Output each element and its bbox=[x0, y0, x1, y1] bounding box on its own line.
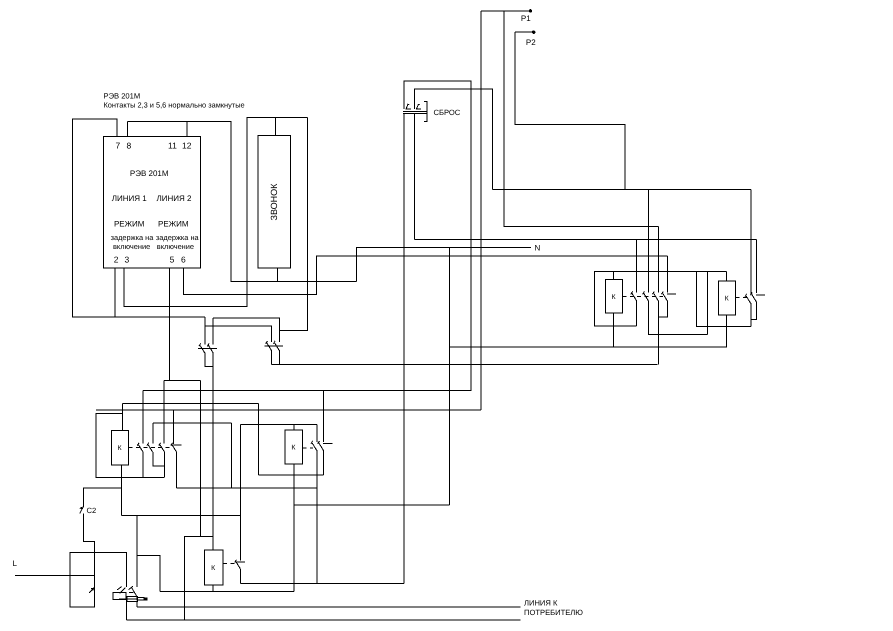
wire K2 frame left side bbox=[257, 403, 259, 475]
node P1 label bbox=[521, 14, 531, 23]
contact K4c1 (NC) bbox=[235, 560, 246, 569]
U1 mode2 label bbox=[158, 220, 189, 229]
wire output line 2 bbox=[126, 619, 520, 621]
wire link x231 down bbox=[230, 423, 232, 488]
U1 on1 label bbox=[113, 242, 150, 251]
wire bus y422 K1 aux line bbox=[153, 422, 232, 424]
relay K2 linkage dashes bbox=[303, 447, 314, 449]
pin 3 label bbox=[125, 254, 130, 264]
wire output line 1 bbox=[137, 606, 521, 608]
contact A2 upper wire bbox=[212, 318, 214, 345]
relay K1 coil label bbox=[117, 445, 122, 452]
wire K3c3 lower to bus y364 bbox=[657, 301, 659, 365]
wire breaker box top extension to fuse F1 bbox=[95, 552, 127, 586]
wire bus y189 P2 net bbox=[492, 188, 751, 190]
wire pin2 stub bbox=[114, 268, 116, 317]
contact B2 lower wire bbox=[278, 350, 280, 364]
relay K5 coil label bbox=[725, 296, 730, 303]
wire contact K4c1 feed bbox=[240, 425, 242, 561]
relay K1 frame bbox=[96, 413, 164, 477]
node blade tip bbox=[144, 598, 148, 601]
contact A1 upper wire bbox=[204, 317, 206, 344]
relay K4 coil box bbox=[204, 550, 223, 585]
relay K4 coil label bbox=[211, 565, 216, 572]
wire K2 coil top pin bbox=[293, 425, 295, 430]
svg-text:P1: P1 bbox=[521, 14, 531, 23]
wire K5 coil bottom pin to bus y347 bbox=[726, 315, 728, 347]
svg-text:К: К bbox=[211, 565, 216, 572]
wire contact K1c3 feed from bus bbox=[173, 410, 175, 444]
wire bus y487 bbox=[177, 487, 317, 489]
wire contact K2c1 feed bbox=[316, 425, 318, 442]
svg-text:5: 5 bbox=[170, 254, 175, 264]
wire bus y390 bbox=[143, 389, 471, 391]
wire bus y583 to SB1 pole1 bbox=[241, 582, 404, 584]
reset button SB1 linkage bracket bbox=[424, 102, 427, 122]
svg-text:включение: включение bbox=[113, 242, 150, 251]
svg-text:ЗВОНОК: ЗВОНОК bbox=[269, 183, 279, 221]
contact K5c1 bbox=[745, 294, 751, 303]
svg-text:К: К bbox=[117, 445, 122, 452]
label output line 2 bbox=[524, 608, 583, 617]
relay K1 linkage dashes bbox=[129, 447, 172, 449]
wire pin8-pin12 top bus to bell bottom bus bbox=[128, 121, 357, 281]
reset button SB1 bar upper bbox=[403, 110, 426, 112]
wire fuse through line bbox=[119, 598, 137, 600]
relay K5 frame inner left side bbox=[707, 271, 709, 334]
wire K4 coil top pin bbox=[212, 537, 214, 551]
wire drop x136 from y515 bbox=[136, 515, 138, 555]
U1 delay2 label bbox=[156, 233, 200, 242]
svg-text:К: К bbox=[291, 445, 296, 452]
wire P1 horizontal bbox=[481, 10, 531, 12]
wire SB1 pole1 long drop bbox=[403, 114, 405, 584]
relay K3 frame bbox=[594, 271, 696, 326]
svg-text:ЛИНИЯ К: ЛИНИЯ К bbox=[524, 599, 558, 608]
wire K2c2 lower to frame corner bbox=[323, 450, 325, 475]
wire bus y591 bbox=[160, 591, 294, 593]
wire drop x449 from N bus bbox=[449, 247, 451, 505]
contact K3c1 bbox=[631, 291, 637, 300]
svg-text:К: К bbox=[725, 296, 730, 303]
relay K3 linkage dashes bbox=[622, 295, 663, 297]
wire contact K3c3 feed drop bbox=[657, 226, 659, 292]
wire K4 coil bottom pin bbox=[212, 585, 214, 592]
breaker QF1 symbol bbox=[89, 587, 94, 593]
node L label bbox=[13, 559, 18, 568]
reset button SB1 pole2 actuator bbox=[416, 104, 421, 109]
wire K5 coil top pin bbox=[726, 271, 728, 281]
wire contact K3c2 feed drop bbox=[648, 189, 650, 292]
wire long drop x200 to relay K4 frame bbox=[199, 381, 201, 537]
relay K2 coil label bbox=[291, 445, 296, 452]
svg-text:L: L bbox=[13, 559, 18, 568]
wire K4c1 lower bbox=[240, 569, 242, 584]
pin 5 label bbox=[170, 254, 175, 264]
pin 2 label bbox=[114, 254, 119, 264]
wire bus y364 to relay group K3 bbox=[272, 363, 658, 365]
pin 11 label bbox=[168, 141, 177, 151]
svg-text:12: 12 bbox=[182, 141, 192, 151]
bell HA1 ЗВОНОК box bbox=[258, 136, 291, 268]
reset button SB1 pole1 upper route bbox=[404, 81, 471, 390]
wire P1 long drop to bus y411 bbox=[480, 11, 482, 410]
wire K3 coil top pin bbox=[612, 271, 614, 279]
relay K3 coil box bbox=[606, 280, 623, 314]
relay K1 coil box bbox=[111, 431, 128, 465]
wire bus y347 relay coils return bbox=[450, 346, 727, 348]
wire branch y326 to contact B1 bbox=[205, 326, 272, 342]
relay K2 coil box bbox=[285, 430, 302, 464]
label output line 1 bbox=[524, 599, 558, 608]
wire K1 bottom route bbox=[122, 514, 241, 516]
wire K1 top feed line y402 bbox=[123, 402, 259, 404]
wire contact K5c2 feed drop bbox=[755, 239, 757, 293]
svg-text:включение: включение bbox=[157, 242, 194, 251]
contact K1c1 bbox=[147, 443, 153, 452]
contact K1c0 bbox=[137, 443, 143, 452]
label contacts note bbox=[104, 100, 245, 109]
wire bus y504 bbox=[294, 504, 450, 506]
svg-text:СБРОС: СБРОС bbox=[434, 108, 461, 117]
contact A2 (NC) bbox=[206, 343, 217, 352]
contact B2 (NC) bbox=[272, 341, 283, 350]
relay K4 frame left bbox=[184, 537, 213, 621]
contact B2 upper wire bbox=[278, 330, 280, 342]
svg-text:P2: P2 bbox=[526, 38, 536, 47]
svg-text:3: 3 bbox=[125, 254, 130, 264]
contact A1 lower wire jog bbox=[205, 353, 213, 367]
svg-text:РЕЖИМ: РЕЖИМ bbox=[158, 220, 189, 229]
svg-text:N: N bbox=[535, 243, 541, 252]
wire K2c1 lower long drop bbox=[316, 450, 318, 583]
relay K5 coil box bbox=[718, 281, 735, 315]
wire K5c2 lower jog to K5c1 bbox=[751, 301, 757, 319]
wire neutral bus N bbox=[357, 247, 531, 281]
svg-text:задержка на: задержка на bbox=[111, 233, 155, 242]
bell label bbox=[269, 183, 279, 221]
contact K3c3 bbox=[653, 291, 659, 300]
wire K5c1 lower to frame bottom bbox=[750, 303, 752, 326]
reset button SB1 label bbox=[434, 108, 461, 117]
wire K3c4 lower jog to K3c3 wire bbox=[658, 301, 667, 318]
U1 mode1 label bbox=[114, 220, 145, 229]
reset button SB1 pole1 actuator bbox=[406, 104, 411, 109]
contact K5c2 (NC) bbox=[751, 292, 766, 301]
svg-text:РЭВ 201М: РЭВ 201М bbox=[104, 92, 141, 101]
switch blade outline bbox=[137, 597, 144, 600]
contact B1 (NC) bbox=[265, 341, 276, 350]
wire pin6 to bus N2 right bbox=[183, 256, 667, 295]
svg-text:2: 2 bbox=[114, 254, 119, 264]
wire C2 branch from K1 wire bbox=[83, 488, 121, 507]
wire F1 down to output bus bbox=[125, 600, 127, 620]
node P2 dot bbox=[532, 31, 535, 34]
relay K5 frame outer path bbox=[696, 271, 750, 326]
svg-text:8: 8 bbox=[127, 141, 132, 151]
pin 8 label bbox=[127, 141, 132, 151]
relay K5 linkage dashes bbox=[736, 297, 747, 299]
wire bus y424 K2 top line bbox=[241, 424, 317, 426]
wire bus y411 P1 net bbox=[96, 409, 481, 411]
wire K2 frame bottom bbox=[258, 474, 323, 476]
wire SB1 pole2 drop to bus y239 bbox=[413, 114, 415, 240]
wire bus B from contact A2 top bbox=[213, 318, 279, 331]
wire jog at y380 bbox=[164, 380, 200, 382]
wire pin5 drop bbox=[168, 268, 170, 381]
wire bus y239 bbox=[414, 238, 756, 240]
contact B1 lower wire bbox=[271, 350, 273, 364]
wire P2 route down and right bbox=[515, 32, 625, 189]
reset button SB1 bar lower bbox=[403, 113, 426, 115]
switch Q2 lever bbox=[129, 586, 138, 597]
wire K3c2 lower to bus y334 bbox=[649, 301, 708, 335]
svg-text:ЛИНИЯ 2: ЛИНИЯ 2 bbox=[157, 194, 193, 203]
wire K2 coil bottom pin bbox=[293, 464, 295, 592]
wire K1c2 lower to frame corner bbox=[164, 452, 166, 478]
wire pin8 riser bbox=[127, 121, 129, 136]
svg-text:6: 6 bbox=[181, 254, 186, 264]
svg-text:Контакты 2,3 и 5,6 нормально з: Контакты 2,3 и 5,6 нормально замкнутые bbox=[104, 100, 245, 109]
wire contact S2 top feed bbox=[163, 381, 165, 444]
wire F2 down to output bus bbox=[136, 602, 138, 607]
wire pin7 to left frame down to node A bus bbox=[73, 119, 205, 317]
node P2 label bbox=[526, 38, 536, 47]
relay K5 frame top edge bbox=[696, 270, 726, 272]
node N label bbox=[535, 243, 541, 252]
contact K2c1 bbox=[311, 441, 317, 450]
wire pin12 riser bbox=[186, 121, 188, 136]
contact K3c2 bbox=[643, 291, 649, 300]
wire K1 bottom to fuse switch Q2 bbox=[136, 555, 138, 587]
wire L input bbox=[15, 574, 95, 576]
node P1 dot bbox=[529, 9, 532, 12]
wire P2 horizontal bbox=[515, 31, 534, 33]
wire K1 coil bottom pin bbox=[121, 465, 123, 516]
wire C2 lower bbox=[83, 513, 94, 587]
wire contact K3c4 feed drop bbox=[666, 256, 668, 292]
relay K3 coil label bbox=[612, 294, 617, 301]
timer relay U1 РЭВ 201М box bbox=[104, 137, 201, 269]
svg-text:РЕЖИМ: РЕЖИМ bbox=[114, 220, 145, 229]
svg-text:11: 11 bbox=[168, 141, 177, 151]
contact K1c3 (NC) bbox=[171, 443, 182, 452]
fuse F2 body bbox=[127, 597, 138, 602]
svg-text:ЛИНИЯ 1: ЛИНИЯ 1 bbox=[112, 194, 148, 203]
svg-text:С2: С2 bbox=[87, 506, 97, 515]
contact K2c2 (NC) bbox=[318, 441, 333, 450]
wire K3c1 lower to frame corner bbox=[636, 301, 638, 327]
wire pin3 to bell outer frame top bbox=[124, 117, 307, 306]
switch C2 lever bbox=[79, 507, 83, 514]
contact K3c4 (NC) bbox=[662, 291, 677, 300]
U1 name label bbox=[130, 169, 169, 178]
contact A1 (NC) bbox=[198, 343, 209, 352]
wire branch y555 right bbox=[137, 556, 160, 592]
svg-text:ПОТРЕБИТЕЛЮ: ПОТРЕБИТЕЛЮ bbox=[524, 608, 583, 617]
switch Q1 lever bbox=[117, 587, 125, 594]
wire bell bottom pin bbox=[276, 268, 278, 281]
U1 line1 label bbox=[112, 194, 148, 203]
contact K1c2 bbox=[159, 443, 165, 452]
label device type РЭВ 201М bbox=[104, 92, 141, 101]
wire contact K5c1 feed drop bbox=[750, 189, 752, 294]
U1 delay1 label bbox=[111, 233, 155, 242]
wire K1 coil top pin bbox=[122, 403, 124, 430]
pin 6 label bbox=[181, 254, 186, 264]
wire P1 branch drop x504 bbox=[504, 11, 658, 226]
reset button SB1 pole2 upper route bbox=[414, 89, 492, 190]
svg-text:РЭВ 201М: РЭВ 201М bbox=[130, 169, 169, 178]
wire K1 frame right side drop bbox=[142, 390, 144, 443]
svg-text:К: К bbox=[612, 294, 617, 301]
wire K1c1 lower jog bbox=[153, 452, 165, 466]
svg-text:7: 7 bbox=[116, 141, 121, 151]
contact A2 lower wire long drop to K4 bbox=[212, 353, 214, 537]
breaker QF1 box bbox=[70, 552, 95, 607]
pin 12 label bbox=[182, 141, 192, 151]
fuse F1 body bbox=[113, 592, 126, 599]
wire K3 coil bottom pin to bus y347 bbox=[612, 313, 614, 347]
wire bell top pin bbox=[275, 117, 277, 135]
wire contact K3c1 feed drop bbox=[636, 239, 638, 292]
svg-text:задержка на: задержка на bbox=[156, 233, 200, 242]
relay K4 linkage dashes bbox=[223, 563, 236, 565]
wire K1c0 lower bbox=[142, 452, 144, 478]
U1 on2 label bbox=[157, 242, 194, 251]
wire contact K1c1 feed bbox=[152, 423, 154, 444]
wire contact K2c2 feed bbox=[323, 390, 325, 442]
pin 7 label bbox=[116, 141, 121, 151]
wire bell frame right side down to contact K2b feed bbox=[279, 117, 307, 330]
U1 line2 label bbox=[157, 194, 193, 203]
switch linkage dash bbox=[129, 592, 134, 594]
wire K1c3 lower staircase to y487 bbox=[176, 452, 178, 488]
capacitor C2 label bbox=[87, 506, 97, 515]
